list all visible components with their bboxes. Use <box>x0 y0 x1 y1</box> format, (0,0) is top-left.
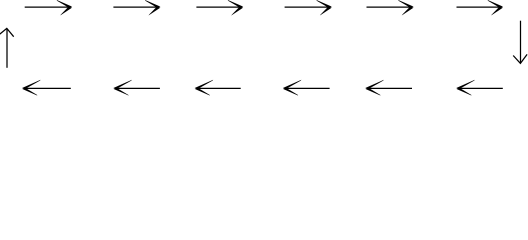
left arrow L2 (bottom row) <box>113 80 159 96</box>
right arrow R1 (top row) <box>25 0 72 15</box>
right arrow R3 (top row) <box>196 0 243 15</box>
left arrow L1 (bottom row) <box>22 80 71 96</box>
right arrow R6 (top row) <box>457 0 504 15</box>
left arrow L3 (bottom row) <box>195 80 241 96</box>
right arrow R5 (top row) <box>367 0 414 15</box>
left arrow L6 (bottom row) <box>456 80 503 96</box>
left arrow L4 (bottom row) <box>283 80 330 96</box>
left arrow L5 (bottom row) <box>365 80 412 96</box>
up arrow (left side) <box>0 28 14 67</box>
right arrow R4 (top row) <box>285 0 332 15</box>
down arrow (right side) <box>513 21 527 64</box>
right arrow R2 (top row) <box>113 0 160 15</box>
